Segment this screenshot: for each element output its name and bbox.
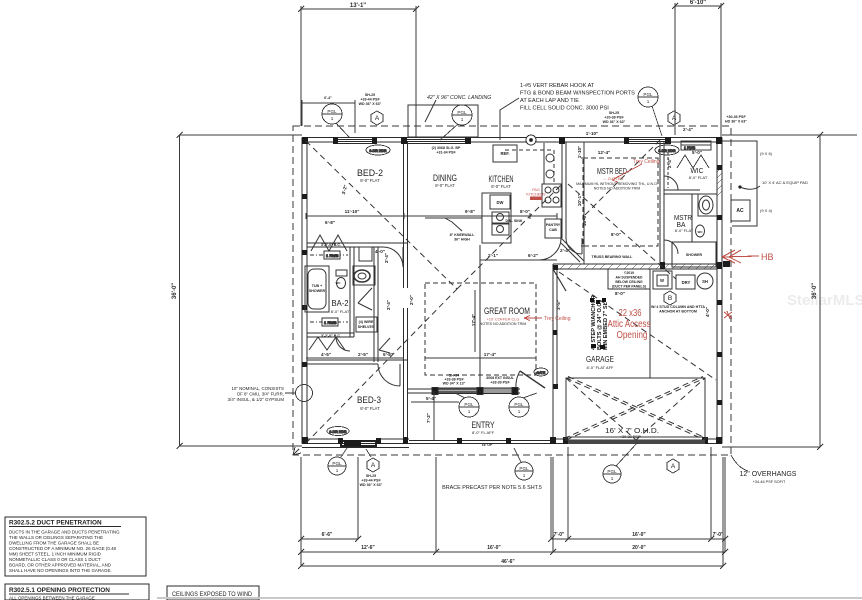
svg-text:+31-34 PSF: +31-34 PSF [436,151,456,155]
svg-text:1: 1 [518,409,521,414]
svg-text:+33-39 PSF: +33-39 PSF [490,381,510,385]
svg-text:SHOWER: SHOWER [686,253,703,257]
svg-text:(2) 3068 SLG. BP: (2) 3068 SLG. BP [432,146,461,150]
svg-text:36'-0": 36'-0" [172,283,178,299]
footing line below left bottom wall [302,447,409,449]
svg-text:8'-0" FLAT: 8'-0" FLAT [491,184,511,189]
svg-text:2'-4": 2'-4" [667,158,672,168]
svg-text:12'-4": 12'-4" [598,150,610,155]
oval tag great room door [534,368,548,376]
svg-text:CAB: CAB [549,228,557,232]
svg-text:1-#5 VERT REBAR HOOK AT: 1-#5 VERT REBAR HOOK AT [520,83,595,89]
svg-text:17'-4": 17'-4" [471,314,476,326]
kitchen angled wall to garage [561,238,584,261]
svg-text:(9 X 6): (9 X 6) [760,151,773,156]
svg-text:+33-44 PSF: +33-44 PSF [361,479,381,483]
svg-text:+34-46 PSF SOFIT: +34-46 PSF SOFIT [753,480,786,484]
svg-text:12" OVERHANGS: 12" OVERHANGS [740,471,797,478]
door arc MSTR BED [566,238,582,254]
svg-text:2'-4": 2'-4" [560,248,570,253]
svg-text:Opening: Opening [617,330,648,341]
red annotation: attic access [608,308,651,341]
garage step line [649,270,651,378]
red annotation: HB [722,250,759,263]
door arc MSTR BA [664,240,678,254]
svg-text:46'-6": 46'-6" [501,559,515,565]
svg-text:17'-4": 17'-4" [484,352,496,357]
svg-text:16'-0": 16'-0" [487,545,501,551]
svg-text:1: 1 [461,117,464,122]
svg-text:3/4" INSUL, & 1/2" GYPSUM: 3/4" INSUL, & 1/2" GYPSUM [228,397,285,402]
entry porch edge [409,440,553,442]
svg-text:6'-2": 6'-2" [528,253,538,258]
interior dimension labels [321,127,710,423]
concrete landing outside dining [408,105,478,137]
svg-text:THE WALLS OR CEILINGS SEPARATI: THE WALLS OR CEILINGS SEPARATING THE [9,535,103,540]
svg-text:WD 36" X 63": WD 36" X 63" [603,120,626,124]
svg-text:PGL: PGL [457,110,467,115]
overhang leader [731,455,748,471]
oval tag bed3 bottom [327,427,349,436]
great room south wall [407,388,436,390]
roof overhang dashed outline [293,126,731,455]
great room south window band [436,388,478,394]
svg-text:1: 1 [331,116,334,121]
window MSTR top [628,139,666,141]
bottom dim row 3 [301,565,723,567]
svg-text:HD 36" X 63": HD 36" X 63" [725,120,747,124]
svg-text:+10' COFFER CLG: +10' COFFER CLG [487,318,520,322]
wall posts (filled cells) [302,136,722,446]
svg-text:3'-2'-0" B.C.: 3'-2'-0" B.C. [321,243,341,247]
svg-text:16'-0": 16'-0" [632,532,646,538]
svg-text:R302.5.1 OPENING PROTECTION: R302.5.1 OPENING PROTECTION [9,587,110,594]
roof diagonal garage [559,272,716,380]
svg-text:PANTRY: PANTRY [546,223,561,227]
BA-2 sink [354,270,370,282]
svg-text:8'-0" FLAT: 8'-0" FLAT [360,406,380,411]
interior wall BA-2 east [349,247,351,337]
right wall WIC hatch [717,167,722,196]
svg-text:SH-25: SH-25 [366,474,376,478]
svg-text:KITCHENS: KITCHENS [526,193,546,197]
svg-text:NONMETALLIC CLASS 0 OR CLASS 1: NONMETALLIC CLASS 0 OR CLASS 1 DUCT [9,557,101,562]
svg-text:PGL: PGL [514,402,524,407]
A hexagon bottom right [667,459,679,473]
kitchen REF box [493,145,517,162]
garage door opening rect [566,378,705,440]
roof diagonal MSTR bed 2 [584,140,660,216]
interior wall BA-2 bottom [307,332,354,334]
svg-text:PGL: PGL [327,109,337,114]
pantry cabinet [545,219,561,238]
svg-text:10" NOMINAL, CONSISTS: 10" NOMINAL, CONSISTS [231,386,284,391]
svg-text:2'-4": 2'-4" [384,253,389,263]
garage utility: water heater SH [697,273,713,289]
oval tag bed2 top [366,145,390,155]
svg-text:WD 36" X 63": WD 36" X 63" [360,483,383,487]
svg-text:8'-0" FLAT: 8'-0" FLAT [689,175,708,180]
kneewall leader [445,218,462,231]
kitchen counter right [544,143,561,184]
svg-text:+39-32 PSF: +39-32 PSF [620,435,641,439]
svg-text:1'-10": 1'-10" [577,146,582,158]
svg-text:Trey Ceiling: Trey Ceiling [633,159,660,165]
svg-text:1 RWB: 1 RWB [326,253,339,258]
fixture labels [309,93,747,487]
svg-text:7'-2": 7'-2" [426,413,431,423]
svg-text:DRY: DRY [682,280,691,285]
svg-text:WD 34" X 13": WD 34" X 13" [443,382,466,386]
svg-text:A: A [672,115,677,122]
left dimension line 36'-0" [177,132,303,449]
exterior wall: right [721,138,723,444]
svg-text:(DUCT PER PANELS): (DUCT PER PANELS) [612,285,646,289]
MSTR BED tray ceiling [583,158,658,246]
opening protection note box [5,584,149,600]
A hexagon top right [668,111,680,125]
svg-text:1 RWB: 1 RWB [324,320,337,325]
svg-text:HB: HB [761,252,774,262]
BA-2 toilet [337,278,346,289]
svg-text:7'-0": 7'-0" [554,532,565,538]
hose bib block [723,261,730,267]
svg-text:Trey Ceiling: Trey Ceiling [544,316,571,322]
svg-text:20'-0": 20'-0" [632,545,646,551]
rebar note [520,83,635,112]
svg-text:11'-10": 11'-10" [345,209,360,214]
top dimension line 13'-1" [298,6,419,137]
kneewall [425,217,482,219]
svg-text:6'-8": 6'-8" [325,220,335,225]
exterior wall: top (double line with window gaps) [302,137,722,139]
WIC bifold doors [677,155,709,168]
svg-text:1: 1 [468,409,471,414]
MSTR BA shower box [672,242,716,267]
bottom dimension labels [322,532,724,565]
svg-text:10' X 4' AC & EQUIP PAD: 10' X 4' AC & EQUIP PAD [762,180,808,185]
column circle on top wall [526,135,536,145]
rebar note leader [500,98,519,140]
svg-text:16' OP: 16' OP [482,443,493,447]
svg-text:8'-0" FLAT: 8'-0" FLAT [675,228,694,233]
svg-text:1: 1 [336,468,339,473]
PGL circle 5 entry-bottom [515,462,533,480]
door arc into BED-3 [378,364,400,386]
svg-text:5'-8": 5'-8" [383,352,393,357]
GREAT ROOM tray ceiling [425,283,536,375]
corner arrow bottom-left overhang [293,447,301,455]
svg-text:WIC: WIC [691,166,705,175]
A hexagon bottom left [367,458,379,472]
AC unit [731,200,750,221]
svg-text:REF.: REF. [500,151,509,156]
svg-text:NOTES NO ADDITION TRIM: NOTES NO ADDITION TRIM [480,322,526,326]
BA-2 wire shelves [356,317,377,332]
svg-text:PGL: PGL [332,461,342,466]
suspended ceiling note box [608,269,650,289]
svg-text:3'-2'-0" B.C.: 3'-2'-0" B.C. [321,334,341,338]
A hexagon top left [371,111,383,125]
svg-text:3-DR HDR: 3-DR HDR [329,430,347,434]
svg-text:8'-0" FLAT: 8'-0" FLAT [360,178,380,183]
svg-text:8'-0" FLAT: 8'-0" FLAT [331,309,350,314]
svg-text:12'-6": 12'-6" [361,545,375,551]
svg-text:7'-0": 7'-0" [713,532,724,538]
top dimension line 6'-10" [672,3,724,137]
svg-text:16'-0": 16'-0" [582,214,587,226]
svg-text:PGL: PGL [607,469,617,474]
svg-text:W/ 4 STUD COLUMN AND HTTA: W/ 4 STUD COLUMN AND HTTA [651,305,705,309]
svg-text:5'-0": 5'-0" [692,150,702,155]
svg-text:2'-4": 2'-4" [683,127,693,132]
svg-text:16' X 7' O.H.D.: 16' X 7' O.H.D. [605,426,659,435]
roof diagonal MSTR bed [568,184,676,279]
svg-text:BELOW CEILING: BELOW CEILING [615,280,643,284]
svg-text:A: A [371,462,376,469]
svg-text:A: A [375,115,380,122]
entry interior structure line [479,245,481,388]
hall closet bifold doors top [311,235,347,251]
svg-text:SHELVES: SHELVES [358,325,375,329]
door arc into BED-2 [383,247,403,267]
svg-text:3-DR HDR: 3-DR HDR [658,149,676,153]
interior wall MSTR/WIC divider [659,142,661,264]
svg-text:GARAGE: GARAGE [586,354,614,364]
svg-text:B: B [668,295,672,302]
AC pad notes [760,151,808,213]
BA-2 door leaf [358,288,372,310]
svg-text:1'-10": 1'-10" [586,131,598,136]
interior wall BED-3 top [307,359,407,361]
window BED-3 bottom (dark bar) [340,440,377,447]
roof diagonal TL to center [306,141,457,289]
door arc WIC [664,176,678,190]
garage door header [566,440,705,442]
MSTR BA toilet [696,225,705,237]
interior wall hall top (BED-2 bottom) [307,242,407,244]
garage utility: washer [653,271,672,289]
svg-text:8'-0" FLAT AFF: 8'-0" FLAT AFF [587,365,614,370]
svg-text:OF 8" CMU, 3/4" FURR,: OF 8" CMU, 3/4" FURR, [237,392,284,397]
MSTR BA plumbing wall [691,194,693,242]
svg-text:2'-1": 2'-1" [488,253,498,258]
exterior wall: bottom [302,443,722,445]
exterior wall: left [301,138,303,444]
wall section callout circle [296,385,313,402]
svg-text:SHOWER: SHOWER [309,289,326,293]
svg-text:GREAT ROOM: GREAT ROOM [484,306,530,317]
dimension text [172,0,818,299]
svg-text:6'-6": 6'-6" [322,532,333,538]
svg-text:TRUSS BEARING WALL: TRUSS BEARING WALL [592,255,634,259]
PGL circle 7 entry-left [459,397,479,417]
symbol labels [327,92,676,481]
interior wall BED2/DINING [403,142,405,247]
closet shelf bands [310,255,348,322]
svg-text:CONSTRUCTED OF A MINIMUM NO. 2: CONSTRUCTED OF A MINIMUM NO. 26 GAGE (0.… [9,546,117,551]
svg-text:FTG & BOND BEAM W/INSPECTION P: FTG & BOND BEAM W/INSPECTION PORTS [520,91,635,97]
svg-text:3068 EXT INSUL: 3068 EXT INSUL [486,376,515,380]
AC leader dot [738,185,741,188]
window DINING top [404,139,468,141]
interior wall WIC/MSTR BA divider [664,189,700,191]
svg-text:4'-0": 4'-0" [705,307,710,317]
svg-text:AC: AC [736,208,744,214]
svg-text:WC: WC [336,281,342,285]
interior dim line great room [425,357,536,359]
svg-text:BA-2: BA-2 [332,298,349,308]
bottom ext lines [300,457,302,566]
bottom dim row 2 [301,551,725,553]
garage utility: dryer [676,275,695,289]
interior dim line hall [306,357,404,359]
garage door X brace [566,378,705,440]
svg-text:AH SUSPENDED: AH SUSPENDED [616,276,643,280]
svg-text:©2019: ©2019 [624,271,634,275]
svg-text:MAXIMUM HL WITHOUT REMOVING TH: MAXIMUM HL WITHOUT REMOVING THL, U.N.O. [576,182,658,186]
duct penetration note box [5,517,146,576]
svg-text:PAG: PAG [532,188,540,192]
pantry door arc [539,238,561,260]
svg-text:10'-1": 10'-1" [577,194,582,206]
great room / garage west wall [552,264,554,439]
svg-text:StellarMLSTM: StellarMLSTM [787,292,862,309]
ceilings exposed box [167,586,259,600]
svg-text:SH-25: SH-25 [365,93,375,97]
MSTR BA vanity [699,196,713,214]
svg-text:AT EACH LAP AND TIE: AT EACH LAP AND TIE [520,98,579,104]
linen box [359,247,372,261]
svg-text:+20-38 PSF: +20-38 PSF [604,116,624,120]
svg-text:1: 1 [523,473,526,478]
kitchen island [482,193,511,243]
svg-text:+33-44 PSF: +33-44 PSF [360,98,380,102]
door arc into BA-2 [336,337,350,351]
svg-text:13'-1": 13'-1" [350,3,366,9]
wall section note [228,386,285,402]
bottom dim row 1 [301,538,358,540]
room labels [331,166,708,439]
svg-text:1: 1 [611,476,614,481]
svg-text:4'-5": 4'-5" [321,352,331,357]
svg-text:3'-5": 3'-5" [556,300,561,310]
svg-text:8'-0": 8'-0" [615,291,625,296]
svg-text:TUB +: TUB + [312,284,322,288]
PGL circle 8 entry-right [509,397,529,417]
interior dim entry [433,391,435,440]
svg-text:WC: WC [698,230,704,234]
garage step note vertical (dense block) [591,295,609,350]
svg-text:PGL: PGL [519,466,529,471]
PGL circle 3 mstr [638,87,658,107]
svg-text:Attic Access: Attic Access [608,319,651,330]
right dimension line 36'-0" [722,132,857,450]
svg-text:(4) WIRE: (4) WIRE [359,320,374,324]
svg-text:2'-4": 2'-4" [386,300,391,310]
svg-text:36" HIGH: 36" HIGH [454,238,470,242]
svg-text:2'-5": 2'-5" [358,352,368,357]
svg-text:42" X 96" CONC. LANDING: 42" X 96" CONC. LANDING [427,95,491,101]
svg-text:5'-4": 5'-4" [426,396,436,401]
truss bearing wall hatch [560,264,715,269]
roof diagonal center to kitchen NE [457,185,561,289]
svg-text:ALL OPENINGS BETWEEN THE GARAG: ALL OPENINGS BETWEEN THE GARAGE [9,596,95,600]
interior wall hall east [403,247,405,288]
svg-text:8'-0" FLAT: 8'-0" FLAT [435,183,455,188]
interior vertical dim great room [474,290,476,352]
svg-text:6'-4": 6'-4" [324,96,332,100]
great room entry door leaf [520,371,545,388]
svg-text:PGL: PGL [464,402,474,407]
svg-text:SH-25: SH-25 [609,111,619,115]
svg-text:3'-2": 3'-2" [341,184,348,195]
BA-2 tub [305,266,329,312]
svg-text:1: 1 [647,99,650,104]
svg-text:8" KNEEWALL: 8" KNEEWALL [450,233,476,237]
svg-text:DW: DW [497,200,504,205]
hall closet bifold doors bottom [309,337,345,350]
svg-text:-◦- CUTTER: -◦- CUTTER [603,177,624,181]
AC equipment pad [722,141,757,226]
small box right of mstr window [681,141,711,150]
svg-text:9'-8": 9'-8" [465,209,475,214]
bed3 hall door leaf [379,338,390,353]
svg-text:2'-0": 2'-0" [409,295,414,305]
oval tag mstr top [655,145,679,155]
svg-text:NOTES NO ADDITION TRIM: NOTES NO ADDITION TRIM [594,187,640,191]
svg-text:DWELLING FROM THE GARAGE SHALL: DWELLING FROM THE GARAGE SHALL BE [9,541,99,546]
svg-text:BOARD, OR OTHER APPROVED MATER: BOARD, OR OTHER APPROVED MATERIAL, AND [9,563,111,568]
svg-text:22 x36: 22 x36 [619,308,642,319]
interior wall closet/hall column [373,247,375,362]
interior dim line kitchen/dining [306,215,557,217]
svg-text:R302.5.2 DUCT PENETRATION: R302.5.2 DUCT PENETRATION [9,520,102,527]
svg-text:ANCHOR AT BOTTOM: ANCHOR AT BOTTOM [659,310,697,314]
svg-text:MM) SHEET STEEL, 1 INCH MINIMU: MM) SHEET STEEL, 1 INCH MINIMUM RIGID [9,552,101,557]
svg-text:DBL SINK: DBL SINK [506,219,523,223]
svg-text:8'-0" FL AFF: 8'-0" FL AFF [472,430,495,435]
svg-text:DUCTS IN THE GARAGE AND DUCTS: DUCTS IN THE GARAGE AND DUCTS PENETRATIN… [9,530,120,535]
PGL circle 6 garage [603,465,621,483]
svg-text:W: W [660,278,664,283]
svg-text:WD 36" X 63": WD 36" X 63" [359,102,382,106]
WIC shelf dashes [667,152,669,188]
svg-text:PGL: PGL [643,92,653,97]
bottom grey rule [157,597,862,599]
kitchen range [542,184,561,207]
window BED-2 top [337,139,374,141]
truss bearing wall garage north [553,263,722,265]
roof diagonal BL to center [306,289,457,443]
dim line 6'-4" bed2 [302,102,355,104]
PGL circle 2 dining [452,105,472,125]
svg-text:SH: SH [702,279,708,284]
svg-text:GATE: GATE [537,371,545,375]
kitchen upper cabinets dashed [505,150,554,183]
PGL circle 1 top left [322,104,342,124]
garage hall door leaf [553,269,566,291]
svg-text:3-DR HDR: 3-DR HDR [369,149,387,153]
svg-text:8'-0": 8'-0" [520,209,530,214]
red mark on garage wall [724,311,732,319]
svg-text:ENTRY: ENTRY [472,420,495,430]
svg-text:SHALL HAVE NO OPENINGS INTO TH: SHALL HAVE NO OPENINGS INTO THE GARAGE. [9,568,112,573]
interior vertical dim mstr [583,142,585,264]
svg-text:6'-10": 6'-10" [690,0,706,6]
PGL circle 4 bed3 [328,457,346,475]
svg-text:8'-0": 8'-0" [611,232,621,237]
